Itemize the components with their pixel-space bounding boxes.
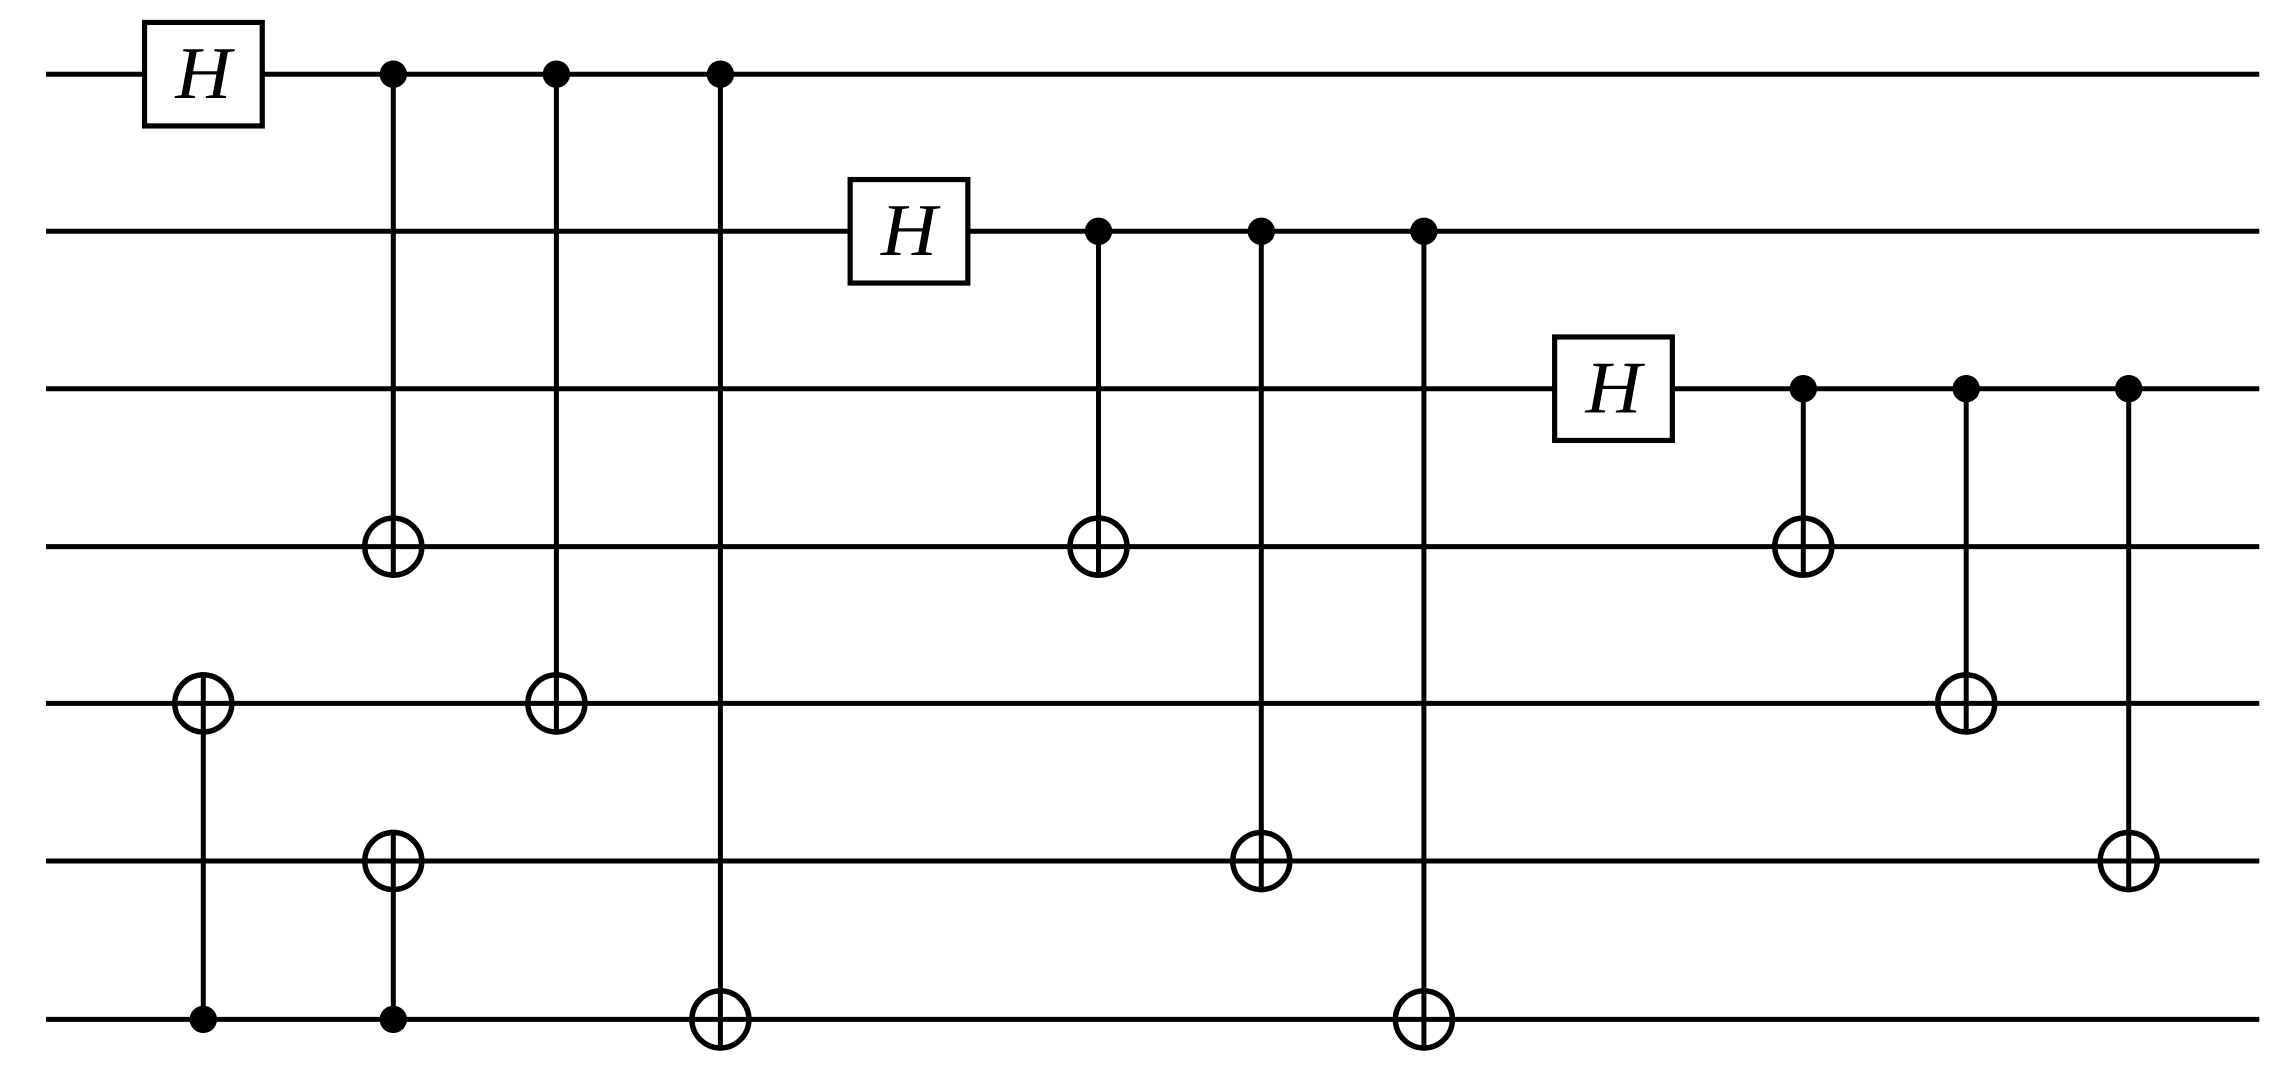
CNOT q1-to-q3 control dot on q1 xyxy=(1085,218,1112,245)
CNOT q1-to-q6 control dot on q1 xyxy=(1410,218,1437,245)
CNOT q1-to-q5 target on q5 xyxy=(1233,833,1290,890)
CNOT q6-to-q5 target on q5 xyxy=(365,833,422,890)
CNOT q2-to-q3 control dot on q2 xyxy=(1790,375,1817,402)
CNOT q0-to-q6 target on q6 xyxy=(692,991,749,1048)
CNOT q2-to-q3 target on q3 xyxy=(1775,518,1832,575)
CNOT q6-to-q4 target on q4 xyxy=(175,675,232,732)
CNOT q6-to-q5 vertical wire xyxy=(391,830,396,1020)
svg-text:H: H xyxy=(1584,348,1645,430)
CNOT q1-to-q3 target on q3 xyxy=(1070,518,1127,575)
CNOT q0-to-q4 control dot on q0 xyxy=(543,60,570,87)
CNOT q0-to-q6 vertical wire xyxy=(718,74,723,1050)
wire q2 xyxy=(46,386,2259,391)
CNOT q6-to-q5 control dot on q6 xyxy=(380,1006,407,1033)
CNOT q1-to-q5 vertical wire xyxy=(1259,231,1264,892)
CNOT q2-to-q5 vertical wire xyxy=(2126,389,2131,893)
hadamard gate H on q1 xyxy=(850,180,968,283)
CNOT q2-to-q5 target on q5 xyxy=(2100,833,2157,890)
CNOT q2-to-q3 vertical wire xyxy=(1801,389,1806,578)
wire q3 xyxy=(46,544,2259,549)
CNOT q0-to-q6 control dot on q0 xyxy=(707,60,734,87)
svg-text:H: H xyxy=(174,33,235,115)
svg-text:H: H xyxy=(880,190,941,272)
hadamard gate H on q2 xyxy=(1555,337,1673,441)
CNOT q1-to-q3 vertical wire xyxy=(1096,231,1101,578)
wire q6 xyxy=(46,1017,2259,1022)
hadamard gate H on q0 xyxy=(145,22,263,126)
CNOT q0-to-q3 vertical wire xyxy=(391,74,396,578)
CNOT q0-to-q3 control dot on q0 xyxy=(380,60,407,87)
CNOT q6-to-q4 control dot on q6 xyxy=(190,1006,217,1033)
CNOT q1-to-q6 vertical wire xyxy=(1421,231,1426,1050)
CNOT q2-to-q4 control dot on q2 xyxy=(1953,375,1980,402)
wire q0 xyxy=(46,72,2259,77)
CNOT q0-to-q3 target on q3 xyxy=(365,518,422,575)
wire q1 xyxy=(46,229,2259,234)
CNOT q2-to-q4 target on q4 xyxy=(1938,675,1995,732)
CNOT q0-to-q4 vertical wire xyxy=(554,74,559,734)
wire q5 xyxy=(46,859,2259,864)
CNOT q2-to-q4 vertical wire xyxy=(1964,389,1969,735)
CNOT q2-to-q5 control dot on q2 xyxy=(2115,375,2142,402)
CNOT q1-to-q5 control dot on q1 xyxy=(1248,218,1275,245)
CNOT q0-to-q4 target on q4 xyxy=(528,675,585,732)
CNOT q1-to-q6 target on q6 xyxy=(1395,991,1452,1048)
wire q4 xyxy=(46,701,2259,706)
CNOT q6-to-q4 vertical wire xyxy=(201,672,206,1019)
